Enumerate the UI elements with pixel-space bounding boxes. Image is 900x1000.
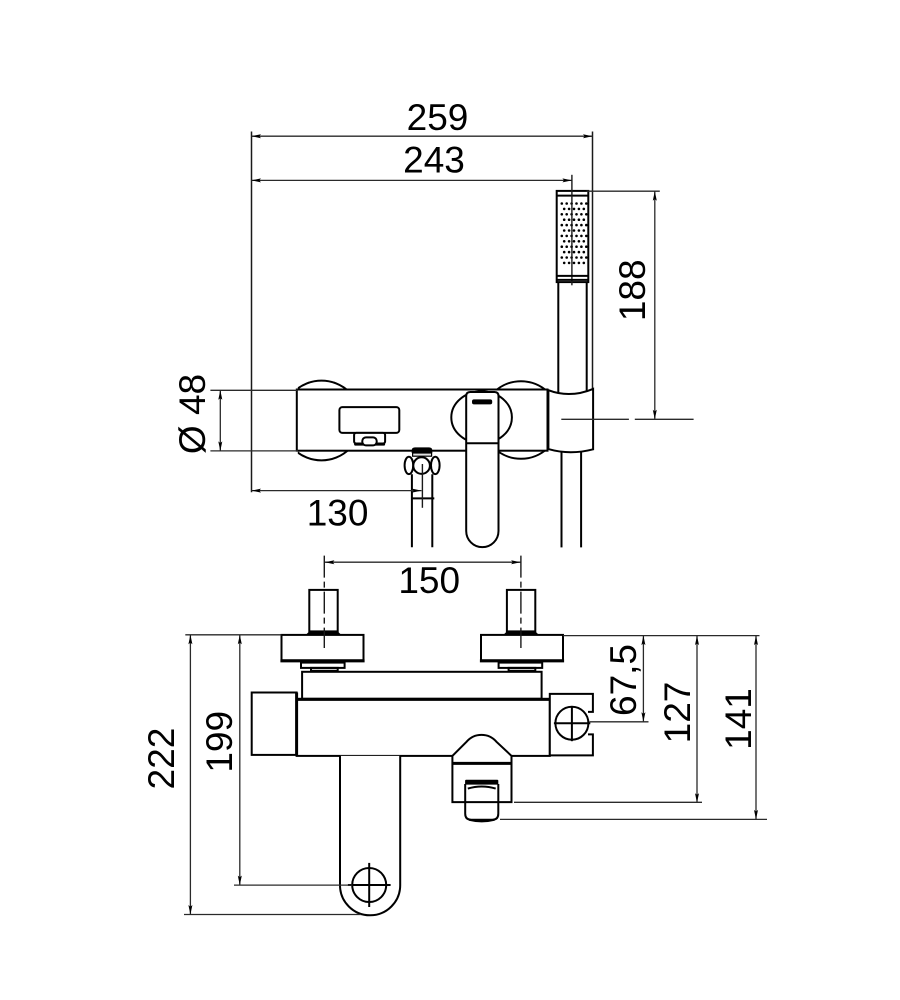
extension line right (259)	[592, 132, 594, 391]
dimension 127 bottom extension	[514, 801, 702, 803]
wall plate	[302, 672, 541, 699]
handshower spray dots	[561, 202, 588, 264]
spout screw	[348, 863, 391, 907]
hose nut	[465, 784, 498, 820]
dimension 141 line	[754, 636, 758, 820]
diverter housing plan	[452, 735, 511, 802]
svg-text:259: 259	[407, 97, 469, 138]
escutcheon circle right	[482, 381, 560, 459]
dimension 188 top extension	[586, 190, 659, 192]
spout plan capsule	[340, 756, 400, 915]
dimension 243 line	[252, 178, 572, 182]
diverter rod	[412, 474, 434, 547]
body bar	[297, 390, 548, 451]
svg-text:222: 222	[141, 728, 182, 790]
inlet nipple right	[507, 590, 535, 632]
aerator dark lip	[356, 443, 384, 446]
handshower centerline	[571, 175, 573, 285]
diverter cap	[412, 447, 433, 453]
diverter knurl middle	[413, 457, 430, 474]
handshower holder	[548, 389, 593, 452]
dimension 141 bottom extension	[500, 818, 767, 820]
top extension right	[563, 635, 760, 637]
dimension 67,5 line	[641, 636, 645, 722]
escutcheon right thick base	[480, 659, 564, 662]
svg-text:127: 127	[657, 682, 698, 744]
holder screw	[554, 707, 590, 742]
lever indicator dash	[472, 399, 492, 404]
connector left	[301, 663, 345, 668]
hose nut dark band	[465, 780, 498, 785]
inlet nipple left	[309, 590, 337, 632]
hose nut under arc	[468, 786, 496, 788]
body plan rect	[297, 699, 550, 756]
svg-text:130: 130	[307, 493, 369, 534]
dimension 188 line	[653, 191, 657, 419]
hose nut bottom arc	[469, 820, 495, 822]
svg-text:67,5: 67,5	[603, 644, 644, 716]
escutcheon left	[282, 635, 364, 660]
svg-text:243: 243	[403, 140, 465, 181]
extension line left (259/243/130)	[251, 132, 253, 493]
escutcheon circle left	[282, 381, 362, 461]
aerator housing	[354, 433, 385, 444]
svg-text:199: 199	[199, 711, 240, 773]
dimension 259 line	[252, 134, 593, 138]
inlet centerline left	[323, 556, 325, 648]
lever collar ellipse	[451, 391, 512, 443]
lever handle	[466, 392, 498, 547]
aerator outlet	[362, 437, 376, 445]
diverter housing thick line	[452, 762, 511, 765]
diameter 48 dimension line	[218, 390, 222, 451]
diameter 48 extension top	[210, 389, 298, 391]
dimension 199 bottom extension	[234, 884, 352, 886]
svg-text:188: 188	[612, 259, 653, 321]
hose nut mid line	[465, 801, 498, 803]
diverter knurl left	[405, 457, 414, 474]
connector right	[499, 663, 543, 668]
spout body	[339, 407, 399, 433]
handshower head cap line	[557, 195, 589, 197]
dimension 150 line	[325, 560, 521, 564]
escutcheon right	[481, 635, 563, 660]
shower hose	[562, 453, 582, 548]
inlet flare left	[306, 631, 342, 635]
holder block plan	[550, 694, 593, 756]
connector left inner	[311, 668, 338, 671]
dimension 67,5 bottom extension	[590, 721, 649, 723]
body plan thick top edge	[297, 698, 550, 701]
handshower lower band thick line	[557, 279, 589, 281]
diverter cap band	[413, 453, 432, 456]
diverter knurl right	[431, 457, 440, 474]
lever joint line	[466, 442, 498, 444]
dimension 222 bottom extension	[184, 914, 361, 916]
connector right inner	[509, 668, 536, 671]
left end box	[252, 693, 297, 755]
dimension 222 line	[188, 635, 192, 915]
escutcheon left thick base	[280, 659, 364, 662]
handshower lower band thin line	[557, 275, 589, 277]
diverter rod centerline	[421, 464, 423, 508]
left end box thick edge	[295, 693, 298, 755]
dimension 188 bottom extension	[561, 418, 629, 420]
handshower wand tube	[558, 282, 586, 394]
svg-text:150: 150	[398, 560, 460, 601]
handshower head body	[557, 191, 589, 282]
top extension left	[185, 634, 281, 636]
dimension 127 line	[695, 636, 699, 803]
svg-text:141: 141	[718, 688, 759, 750]
dimension 130 line	[252, 489, 422, 493]
svg-text:Ø 48: Ø 48	[172, 374, 213, 454]
diameter 48 extension bottom	[210, 450, 298, 452]
inlet centerline right	[520, 556, 522, 648]
inlet flare right	[503, 631, 539, 635]
dimension 199 line	[238, 635, 242, 885]
